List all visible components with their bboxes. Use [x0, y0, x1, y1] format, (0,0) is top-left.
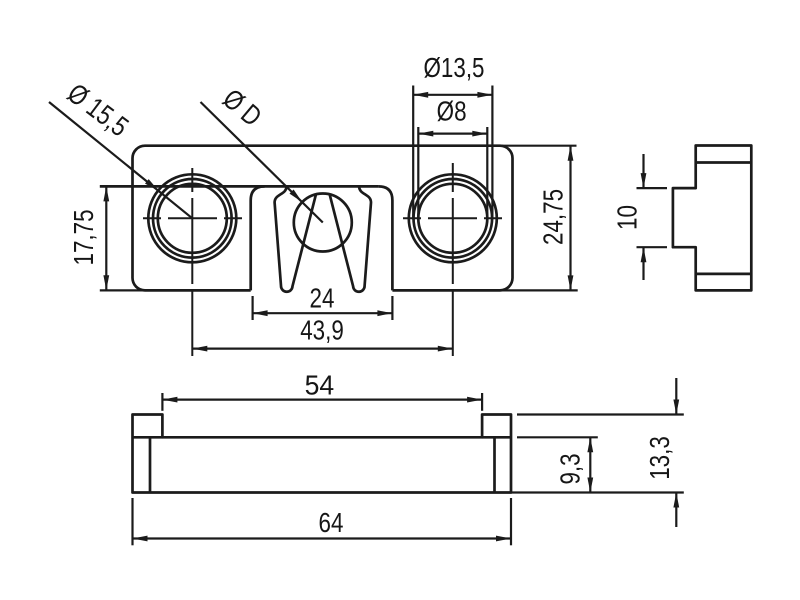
right boss inner ring — [418, 184, 487, 253]
ext 24,75 top — [500, 145, 577, 147]
svg-text:9,3: 9,3 — [555, 453, 586, 484]
bottom view bar top edge under tabs — [133, 436, 512, 439]
ext 64 right — [510, 498, 512, 545]
ext 13,3 top — [517, 413, 684, 415]
ext dia13,5 left — [412, 86, 414, 220]
right boss outer ring — [409, 174, 497, 262]
dim line 17,75 — [105, 186, 107, 290]
bottom view left interior wall line — [149, 437, 152, 492]
arrow 24,75 down — [568, 275, 574, 290]
arrow 24 left — [253, 310, 268, 316]
svg-text:Ø13,5: Ø13,5 — [424, 53, 485, 84]
right hole horizontal centerline — [403, 217, 502, 219]
arrow 43,9 right — [438, 346, 453, 352]
spring clip right prong — [330, 186, 371, 291]
side view lower interior line — [696, 273, 752, 276]
right boss middle ring — [414, 179, 493, 258]
arrow 9,3 down — [587, 478, 593, 493]
ext 24 left — [252, 296, 254, 320]
ext 54 right — [481, 393, 483, 411]
dim line 24 — [253, 312, 393, 314]
arrow 43,9 left — [192, 346, 207, 352]
ext dia13,5 right — [491, 86, 493, 220]
arrow 10 bottom outside — [641, 247, 647, 262]
plate outline (top view) — [133, 146, 513, 291]
arrow 54 left — [162, 397, 177, 403]
ext 24,75 bottom — [500, 289, 578, 291]
svg-text:24,75: 24,75 — [538, 189, 569, 245]
dim line 43,9 — [192, 348, 453, 350]
arrow 64 left — [133, 536, 148, 542]
arrow 24,75 up — [568, 146, 574, 161]
spring clip circle — [294, 194, 352, 252]
ext 54 left — [161, 393, 163, 411]
dim line 54 — [162, 399, 482, 401]
left hole vertical centerline — [191, 168, 193, 356]
ext 24 right — [391, 296, 393, 320]
ext dia8 left — [417, 127, 419, 220]
extension lines — [100, 86, 684, 546]
ext dia8 right — [486, 127, 488, 220]
left boss outer ring — [148, 174, 236, 262]
arrow 17,75 up — [103, 186, 109, 201]
arrow dia8 right — [472, 131, 487, 137]
ext 10 bottom — [637, 246, 668, 248]
ext 64 left — [131, 498, 133, 545]
bottom view right interior wall line — [493, 437, 496, 492]
recess step line across plate — [100, 185, 379, 188]
centerlines — [143, 163, 502, 356]
left boss inner ring — [158, 184, 227, 253]
svg-text:24: 24 — [310, 283, 335, 314]
ext 10 top — [637, 187, 668, 189]
arrow dia13,5 left — [413, 92, 428, 98]
arrowheads — [103, 92, 679, 542]
leader dia15,5 — [49, 102, 192, 218]
dim line 64 — [133, 537, 512, 539]
dim line 24,75 — [569, 146, 571, 291]
ext 17,75 bottom — [100, 289, 146, 291]
arrow leader dia15,5 — [145, 179, 159, 191]
arrow 64 right — [496, 536, 511, 542]
svg-text:13,3: 13,3 — [645, 436, 676, 480]
spring clip left prong — [275, 186, 316, 291]
side view upper interior line — [696, 161, 752, 164]
right hole vertical centerline — [452, 163, 454, 356]
svg-text:17,75: 17,75 — [69, 209, 100, 265]
leader diaD — [201, 102, 323, 223]
ext 9,3 and 13,3 bottom — [511, 491, 684, 493]
dim line 9,3 — [589, 437, 591, 492]
ext 9,3 top — [517, 436, 598, 438]
svg-text:64: 64 — [319, 508, 344, 539]
svg-text:10: 10 — [612, 205, 643, 230]
svg-text:43,9: 43,9 — [300, 315, 344, 346]
arrow 17,75 down — [103, 275, 109, 290]
arrow 13,3 top outside — [673, 400, 679, 415]
middle cutout box right wall — [378, 186, 392, 290]
dim tails 13,3 — [675, 378, 677, 527]
dimension lines — [49, 95, 676, 539]
arrow dia13,5 right — [477, 92, 492, 98]
dimension texts — [62, 53, 676, 539]
bottom view bar outline — [133, 415, 512, 493]
dim tails 10 — [642, 154, 644, 280]
arrow 10 top outside — [641, 173, 647, 188]
left boss middle ring — [153, 179, 232, 258]
left hole horizontal centerline — [143, 217, 242, 219]
arrow dia8 left — [418, 131, 433, 137]
svg-text:54: 54 — [305, 369, 335, 401]
middle cutout box left wall — [251, 186, 265, 290]
arrow 9,3 up — [587, 437, 593, 452]
arrow leader diaD — [290, 190, 303, 203]
arrow 24 right — [377, 310, 392, 316]
arrow 13,3 bottom outside — [673, 493, 679, 508]
dim line dia8 — [418, 133, 487, 135]
dim line dia13,5 — [413, 94, 492, 96]
side view outline — [673, 146, 751, 291]
svg-text:Ø8: Ø8 — [437, 96, 467, 127]
arrow 54 right — [467, 397, 482, 403]
